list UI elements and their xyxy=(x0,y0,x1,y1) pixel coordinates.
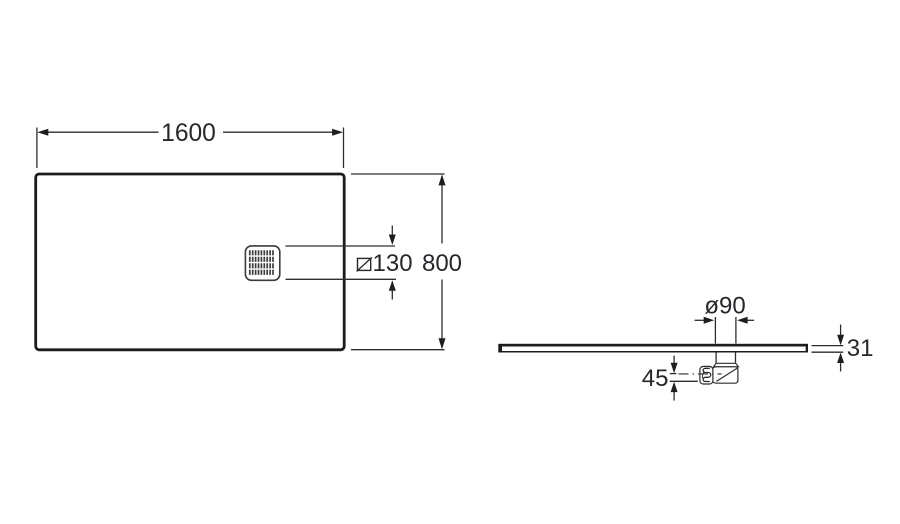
siphon elbow diagonal edge xyxy=(716,368,737,381)
dimension 45 lower arrow pointing up xyxy=(671,382,678,401)
drain centerline dash-dot xyxy=(679,373,722,375)
dimension 1600 value label xyxy=(161,120,216,147)
dimension 130 extension line top xyxy=(286,245,396,247)
ribbed coupling nut xyxy=(700,366,713,384)
dimension 45 extension line top xyxy=(670,373,677,375)
svg-text:1600: 1600 xyxy=(161,120,216,147)
dimension 31 lower arrow pointing up xyxy=(837,353,844,372)
dimension 800 line bottom segment with arrow xyxy=(439,280,446,350)
dimension 90 extension line left xyxy=(714,317,716,344)
dimension 1600 line right segment with arrow xyxy=(223,129,343,136)
dimension 31 extension line bottom xyxy=(812,351,844,353)
dimension 31 upper arrow pointing down xyxy=(837,325,844,346)
drain grate outline xyxy=(245,246,279,280)
dimension 130 upper arrow pointing down xyxy=(389,226,396,246)
dimension 90 right arrow pointing left xyxy=(737,317,754,324)
dimension 1600 line left segment with arrow xyxy=(37,129,158,136)
drain flange collar xyxy=(714,363,739,367)
dimension 800 line top segment with arrow xyxy=(439,174,446,243)
dimension 90 value label xyxy=(704,292,745,319)
dimension 45 extension line bottom xyxy=(670,380,698,382)
svg-text:45: 45 xyxy=(642,365,669,392)
dimension 130 value label xyxy=(373,250,413,277)
dimension 1600 extension line left xyxy=(36,128,38,169)
dimension 1600 extension line right xyxy=(343,128,345,169)
siphon elbow body with left arc xyxy=(709,367,738,383)
drain grate grille slots xyxy=(250,250,273,275)
dimension 800 value label xyxy=(422,250,462,277)
svg-text:800: 800 xyxy=(422,250,462,277)
dimension 45 value label xyxy=(642,365,669,392)
dimension 130 extension line bottom xyxy=(286,278,397,280)
dimension 45 upper arrow pointing down xyxy=(671,356,678,374)
drain pipe below tray xyxy=(716,352,735,363)
dimension 90 left arrow pointing right xyxy=(695,317,715,324)
tray top-view outline xyxy=(36,174,345,350)
svg-text:31: 31 xyxy=(847,335,874,362)
svg-text:130: 130 xyxy=(373,250,413,277)
dimension 31 value label xyxy=(847,335,874,362)
dimension 31 extension line top xyxy=(812,345,844,347)
dimension 800 extension line bottom xyxy=(351,349,445,351)
dimension 800 extension line top xyxy=(351,173,445,175)
dimension 90 extension line right xyxy=(735,317,737,344)
square symbol of 130 label xyxy=(357,257,372,271)
tray side-view profile xyxy=(498,344,808,353)
dimension 130 lower arrow pointing up xyxy=(389,280,396,299)
svg-text:ø90: ø90 xyxy=(704,292,745,319)
